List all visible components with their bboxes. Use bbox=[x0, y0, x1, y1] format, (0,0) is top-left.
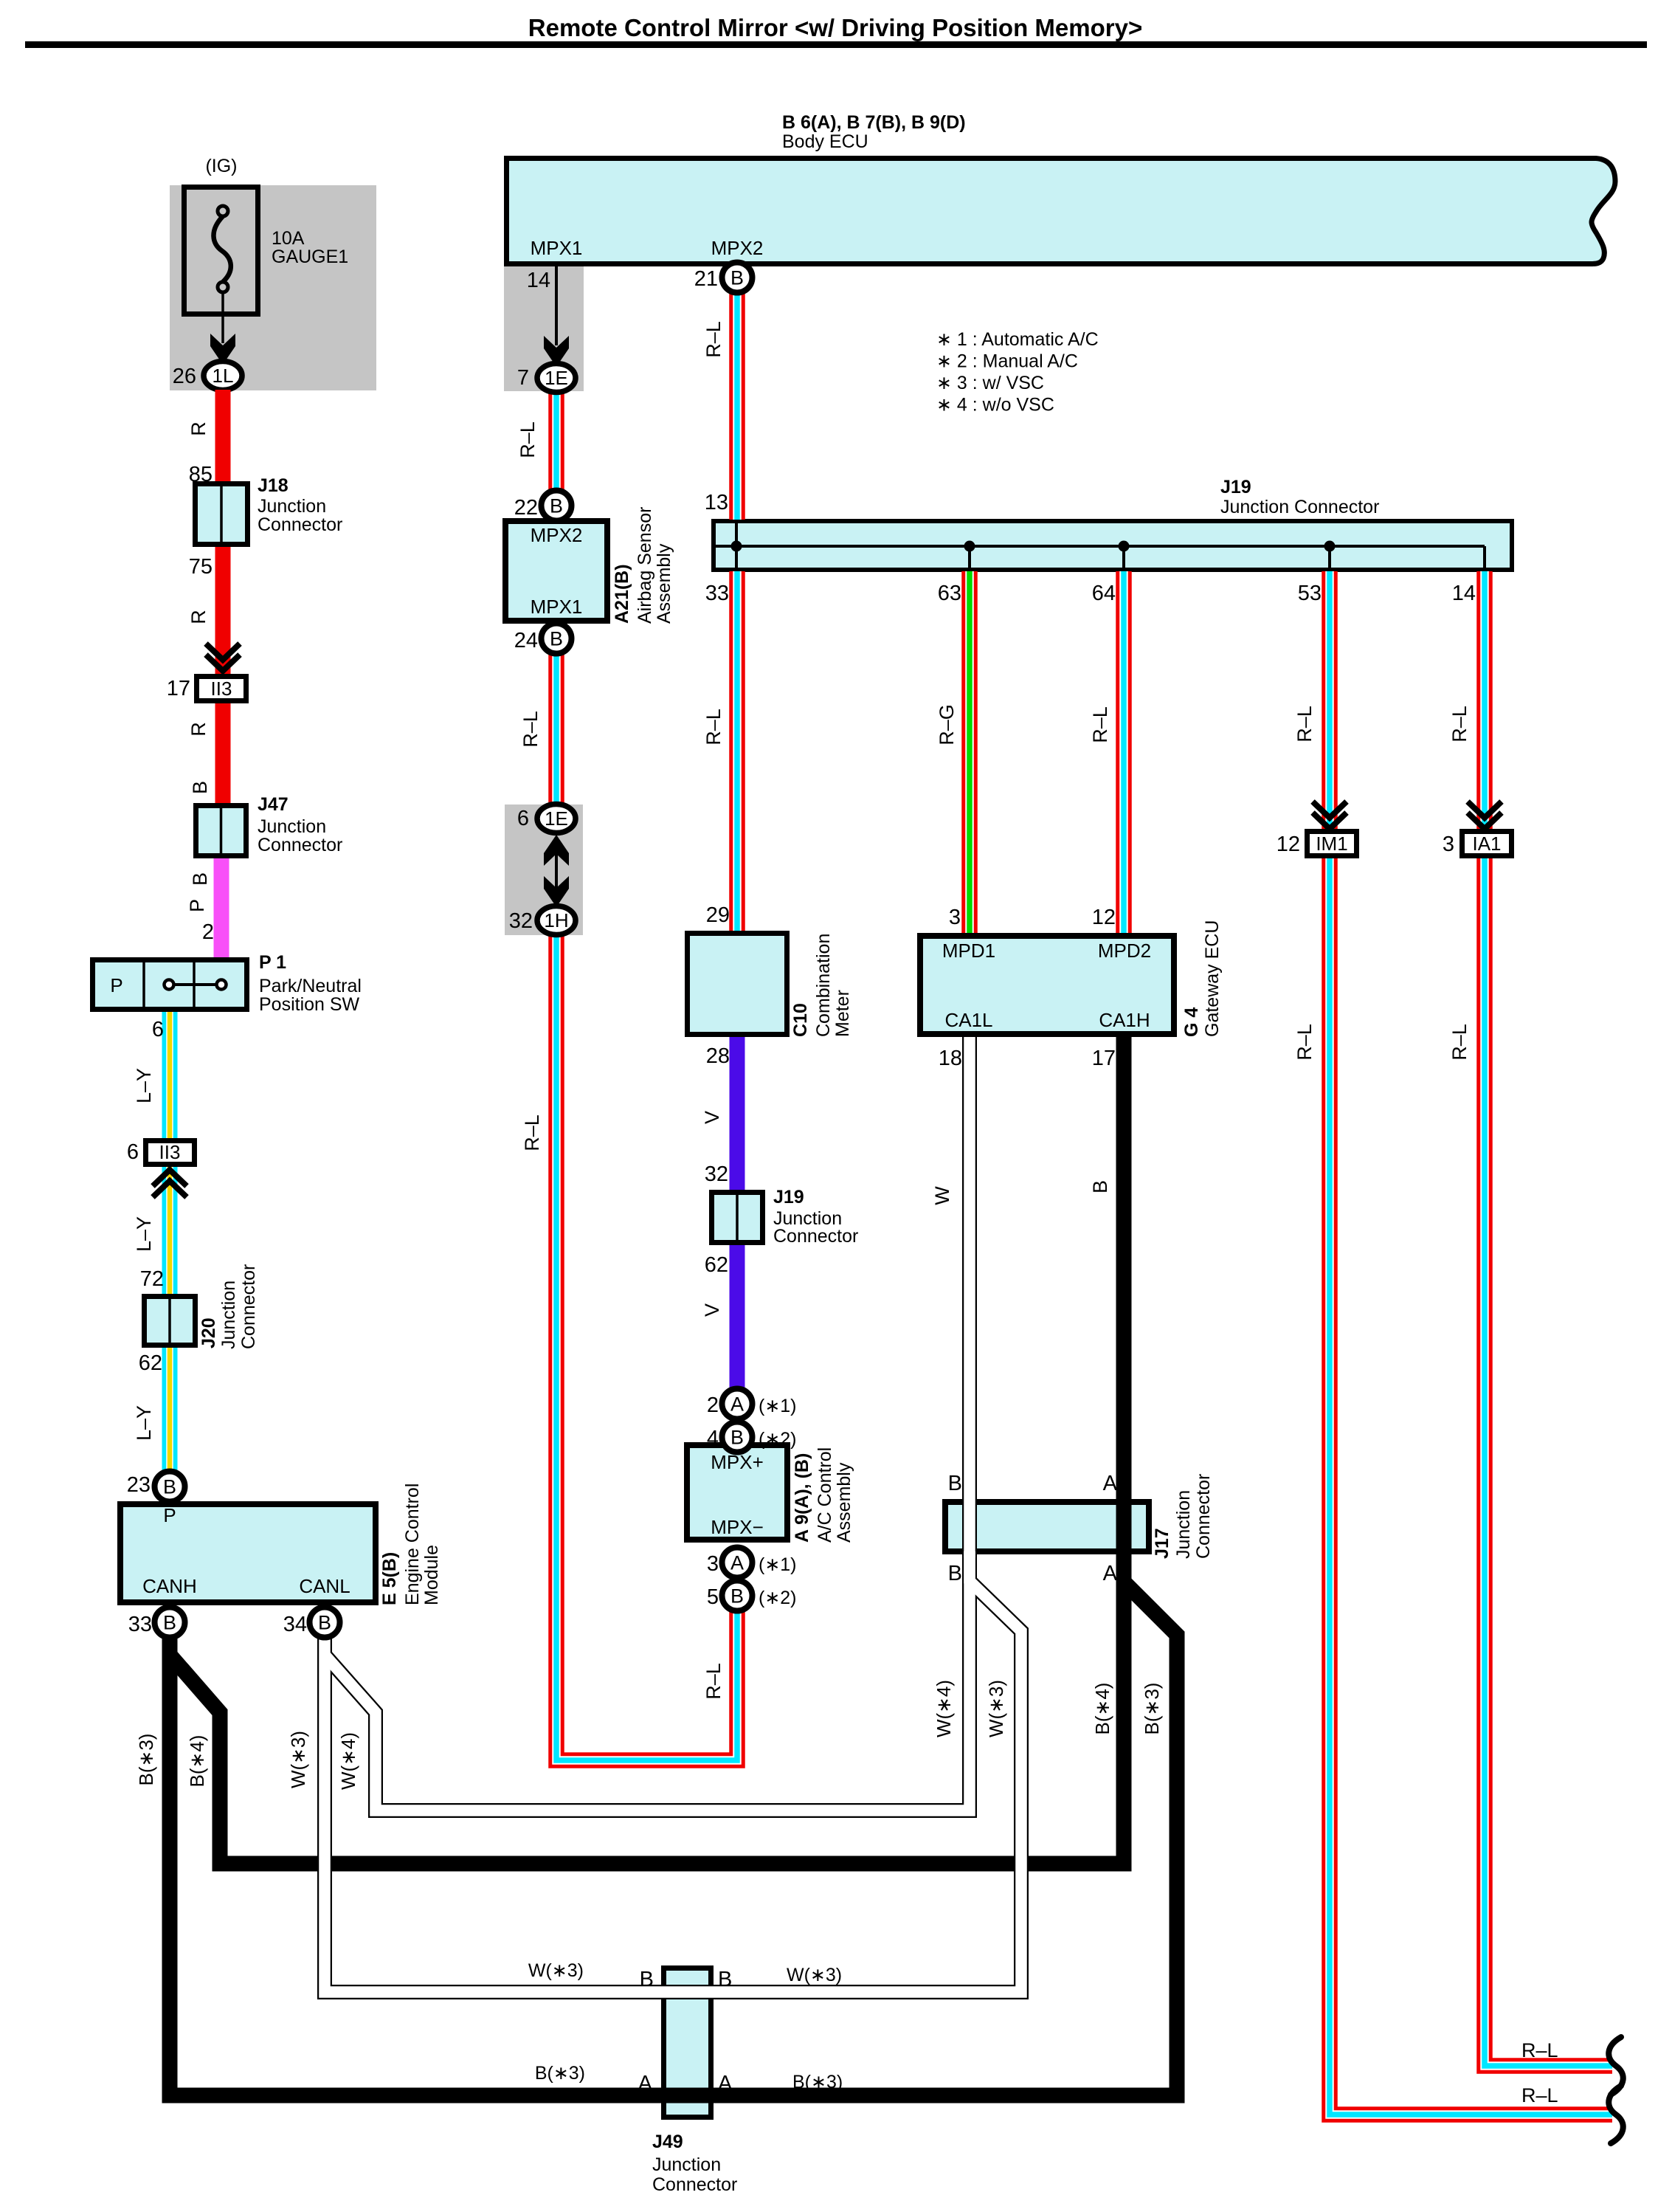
svg-text:B: B bbox=[189, 781, 211, 794]
svg-text:14: 14 bbox=[1452, 582, 1476, 605]
svg-text:Module: Module bbox=[421, 1545, 442, 1605]
svg-text:14: 14 bbox=[527, 269, 550, 292]
svg-text:28: 28 bbox=[706, 1044, 730, 1068]
svg-text:P: P bbox=[163, 1504, 176, 1526]
svg-text:22: 22 bbox=[514, 496, 538, 520]
svg-text:6: 6 bbox=[517, 807, 529, 830]
svg-text:V: V bbox=[701, 1111, 723, 1124]
svg-text:R–L: R–L bbox=[1089, 706, 1111, 743]
svg-text:Assembly: Assembly bbox=[654, 543, 674, 624]
svg-text:W: W bbox=[931, 1186, 953, 1205]
svg-text:A: A bbox=[1103, 1472, 1118, 1495]
svg-text:B: B bbox=[163, 1476, 176, 1498]
svg-text:Junction Connector: Junction Connector bbox=[1220, 497, 1379, 517]
svg-text:W(∗3): W(∗3) bbox=[528, 1960, 584, 1981]
svg-text:R: R bbox=[187, 610, 210, 624]
svg-text:R–G: R–G bbox=[936, 704, 958, 745]
svg-text:Position SW: Position SW bbox=[259, 994, 360, 1015]
svg-text:A21(B): A21(B) bbox=[612, 564, 632, 624]
svg-text:17: 17 bbox=[167, 677, 190, 700]
svg-text:J19: J19 bbox=[1220, 477, 1251, 497]
svg-text:12: 12 bbox=[1277, 833, 1300, 856]
svg-text:IM1: IM1 bbox=[1316, 833, 1347, 855]
svg-text:Gateway ECU: Gateway ECU bbox=[1202, 920, 1223, 1037]
svg-text:75: 75 bbox=[189, 555, 213, 579]
svg-text:W(∗4): W(∗4) bbox=[933, 1680, 955, 1737]
svg-text:17: 17 bbox=[1092, 1047, 1116, 1070]
svg-text:L–Y: L–Y bbox=[133, 1405, 155, 1441]
svg-text:P: P bbox=[110, 974, 122, 996]
svg-text:R–L: R–L bbox=[1448, 1024, 1471, 1061]
svg-text:12: 12 bbox=[1092, 906, 1116, 929]
svg-text:2: 2 bbox=[202, 920, 214, 944]
svg-text:CA1L: CA1L bbox=[944, 1009, 992, 1031]
svg-text:Airbag Sensor: Airbag Sensor bbox=[635, 507, 655, 624]
svg-text:A: A bbox=[730, 1552, 744, 1574]
svg-text:B: B bbox=[948, 1472, 962, 1495]
svg-text:B: B bbox=[730, 1585, 744, 1608]
svg-text:32: 32 bbox=[705, 1162, 728, 1186]
svg-text:E 5(B): E 5(B) bbox=[379, 1552, 400, 1605]
svg-text:A: A bbox=[1103, 1562, 1118, 1585]
svg-text:21: 21 bbox=[694, 267, 718, 291]
svg-text:B: B bbox=[1089, 1180, 1111, 1193]
svg-text:26: 26 bbox=[173, 365, 196, 388]
svg-text:6: 6 bbox=[127, 1140, 139, 1164]
svg-text:MPX2: MPX2 bbox=[711, 237, 764, 259]
svg-text:R: R bbox=[187, 421, 210, 436]
svg-text:B(∗3): B(∗3) bbox=[135, 1734, 157, 1786]
svg-text:II3: II3 bbox=[211, 678, 232, 700]
svg-text:Engine Control: Engine Control bbox=[402, 1484, 423, 1605]
svg-text:(∗1): (∗1) bbox=[759, 1554, 797, 1575]
svg-text:5: 5 bbox=[707, 1585, 719, 1609]
svg-text:Assembly: Assembly bbox=[834, 1462, 854, 1543]
svg-text:24: 24 bbox=[514, 629, 538, 652]
svg-text:2: 2 bbox=[707, 1393, 719, 1417]
svg-text:J49: J49 bbox=[652, 2132, 683, 2152]
svg-text:Junction: Junction bbox=[1173, 1490, 1194, 1559]
svg-text:CANL: CANL bbox=[299, 1575, 350, 1597]
svg-text:∗ 3 : w/ VSC: ∗ 3 : w/ VSC bbox=[936, 373, 1044, 393]
svg-text:∗ 1 : Automatic A/C: ∗ 1 : Automatic A/C bbox=[936, 329, 1099, 350]
svg-text:P: P bbox=[186, 899, 208, 912]
svg-text:W(∗3): W(∗3) bbox=[787, 1965, 842, 1985]
svg-text:B(∗3): B(∗3) bbox=[535, 2063, 585, 2084]
svg-text:34: 34 bbox=[283, 1613, 307, 1636]
svg-text:CANH: CANH bbox=[142, 1575, 197, 1597]
svg-text:(∗1): (∗1) bbox=[759, 1396, 797, 1416]
svg-text:R–L: R–L bbox=[702, 1663, 725, 1700]
svg-text:72: 72 bbox=[140, 1267, 164, 1291]
svg-text:Body ECU: Body ECU bbox=[782, 131, 868, 152]
svg-text:1L: 1L bbox=[213, 365, 234, 387]
svg-text:B(∗4): B(∗4) bbox=[1091, 1683, 1113, 1735]
svg-text:A/C Control: A/C Control bbox=[815, 1447, 835, 1543]
svg-text:GAUGE1: GAUGE1 bbox=[272, 247, 348, 267]
svg-text:R–L: R–L bbox=[517, 421, 539, 458]
svg-text:7: 7 bbox=[517, 366, 529, 390]
svg-text:MPX2: MPX2 bbox=[531, 524, 583, 546]
svg-text:B: B bbox=[550, 495, 563, 517]
svg-text:J47: J47 bbox=[258, 794, 289, 815]
svg-text:B(∗3): B(∗3) bbox=[1141, 1683, 1163, 1735]
svg-text:64: 64 bbox=[1092, 582, 1116, 605]
svg-text:J20: J20 bbox=[198, 1317, 219, 1348]
svg-text:18: 18 bbox=[939, 1047, 962, 1070]
svg-text:CA1H: CA1H bbox=[1099, 1009, 1150, 1031]
svg-text:33: 33 bbox=[128, 1613, 152, 1636]
svg-text:G 4: G 4 bbox=[1181, 1007, 1202, 1037]
svg-text:B: B bbox=[948, 1562, 962, 1585]
svg-text:(IG): (IG) bbox=[205, 156, 237, 176]
svg-text:62: 62 bbox=[139, 1351, 162, 1375]
svg-text:B(∗4): B(∗4) bbox=[186, 1735, 208, 1788]
svg-text:J18: J18 bbox=[258, 475, 289, 496]
svg-text:33: 33 bbox=[705, 582, 729, 605]
svg-text:A: A bbox=[730, 1393, 744, 1416]
svg-text:B: B bbox=[318, 1612, 331, 1634]
svg-text:53: 53 bbox=[1298, 582, 1322, 605]
svg-text:IA1: IA1 bbox=[1472, 833, 1501, 855]
svg-text:1E: 1E bbox=[545, 367, 568, 389]
svg-text:10A: 10A bbox=[272, 228, 305, 249]
svg-text:3: 3 bbox=[1443, 833, 1454, 856]
svg-text:R–L: R–L bbox=[702, 321, 725, 358]
svg-text:B: B bbox=[189, 872, 211, 886]
svg-text:B: B bbox=[550, 628, 563, 650]
svg-text:Junction: Junction bbox=[652, 2154, 721, 2175]
svg-text:Connector: Connector bbox=[773, 1226, 858, 1247]
svg-text:∗ 4 : w/o VSC: ∗ 4 : w/o VSC bbox=[936, 395, 1054, 416]
svg-text:MPD2: MPD2 bbox=[1098, 940, 1151, 962]
svg-text:B 6(A), B 7(B), B 9(D): B 6(A), B 7(B), B 9(D) bbox=[782, 112, 966, 133]
svg-text:6: 6 bbox=[152, 1018, 164, 1041]
svg-text:Remote Control Mirror <w/ Driv: Remote Control Mirror <w/ Driving Positi… bbox=[528, 14, 1142, 41]
svg-text:23: 23 bbox=[127, 1473, 151, 1497]
svg-text:(∗2): (∗2) bbox=[759, 1429, 797, 1450]
svg-text:4: 4 bbox=[707, 1427, 719, 1450]
svg-text:II3: II3 bbox=[159, 1141, 181, 1163]
svg-text:Junction: Junction bbox=[258, 496, 326, 517]
svg-text:L–Y: L–Y bbox=[133, 1068, 155, 1103]
svg-text:R–L: R–L bbox=[1521, 2039, 1558, 2061]
svg-text:P 1: P 1 bbox=[259, 952, 286, 973]
svg-text:W(∗3): W(∗3) bbox=[985, 1680, 1007, 1737]
svg-text:V: V bbox=[701, 1303, 723, 1317]
svg-text:63: 63 bbox=[938, 582, 961, 605]
svg-text:W(∗3): W(∗3) bbox=[287, 1731, 309, 1788]
svg-text:Park/Neutral: Park/Neutral bbox=[259, 976, 362, 996]
svg-text:J17: J17 bbox=[1152, 1528, 1172, 1559]
svg-text:R–L: R–L bbox=[1521, 2084, 1558, 2106]
svg-text:R: R bbox=[187, 722, 210, 737]
svg-text:R–L: R–L bbox=[702, 709, 725, 745]
svg-text:A 9(A), (B): A 9(A), (B) bbox=[792, 1453, 812, 1543]
svg-text:R–L: R–L bbox=[519, 711, 542, 748]
svg-text:32: 32 bbox=[509, 909, 533, 933]
svg-text:J19: J19 bbox=[773, 1187, 804, 1207]
svg-text:29: 29 bbox=[706, 903, 730, 927]
svg-text:L–Y: L–Y bbox=[133, 1216, 155, 1252]
svg-text:1E: 1E bbox=[545, 807, 568, 830]
svg-text:MPD1: MPD1 bbox=[942, 940, 995, 962]
svg-text:Connector: Connector bbox=[652, 2174, 737, 2195]
svg-text:62: 62 bbox=[705, 1253, 728, 1277]
svg-text:MPX1: MPX1 bbox=[531, 596, 583, 618]
svg-text:Combination: Combination bbox=[813, 934, 834, 1037]
svg-text:B(∗3): B(∗3) bbox=[792, 2072, 843, 2092]
svg-text:Connector: Connector bbox=[258, 835, 342, 855]
svg-text:3: 3 bbox=[949, 906, 961, 929]
svg-text:Meter: Meter bbox=[832, 990, 853, 1037]
svg-text:3: 3 bbox=[707, 1552, 719, 1576]
svg-text:B: B bbox=[163, 1612, 176, 1634]
svg-text:R–L: R–L bbox=[1448, 706, 1471, 742]
svg-text:13: 13 bbox=[705, 491, 728, 514]
svg-text:(∗2): (∗2) bbox=[759, 1588, 797, 1608]
svg-text:C10: C10 bbox=[790, 1003, 811, 1037]
svg-text:Junction: Junction bbox=[258, 816, 326, 837]
svg-text:∗ 2 : Manual A/C: ∗ 2 : Manual A/C bbox=[936, 351, 1078, 372]
svg-text:MPX1: MPX1 bbox=[531, 237, 583, 259]
svg-text:Connector: Connector bbox=[238, 1264, 259, 1349]
svg-text:Junction: Junction bbox=[218, 1281, 239, 1349]
svg-text:1H: 1H bbox=[544, 909, 568, 931]
svg-text:Connector: Connector bbox=[1193, 1474, 1214, 1559]
svg-text:R–L: R–L bbox=[1293, 706, 1316, 742]
svg-text:R–L: R–L bbox=[521, 1114, 543, 1151]
svg-text:B: B bbox=[730, 1427, 744, 1449]
svg-text:MPX−: MPX− bbox=[711, 1516, 764, 1538]
svg-text:Connector: Connector bbox=[258, 514, 342, 535]
svg-text:W(∗4): W(∗4) bbox=[337, 1732, 359, 1790]
svg-text:B: B bbox=[730, 267, 744, 289]
svg-text:R–L: R–L bbox=[1293, 1024, 1316, 1061]
